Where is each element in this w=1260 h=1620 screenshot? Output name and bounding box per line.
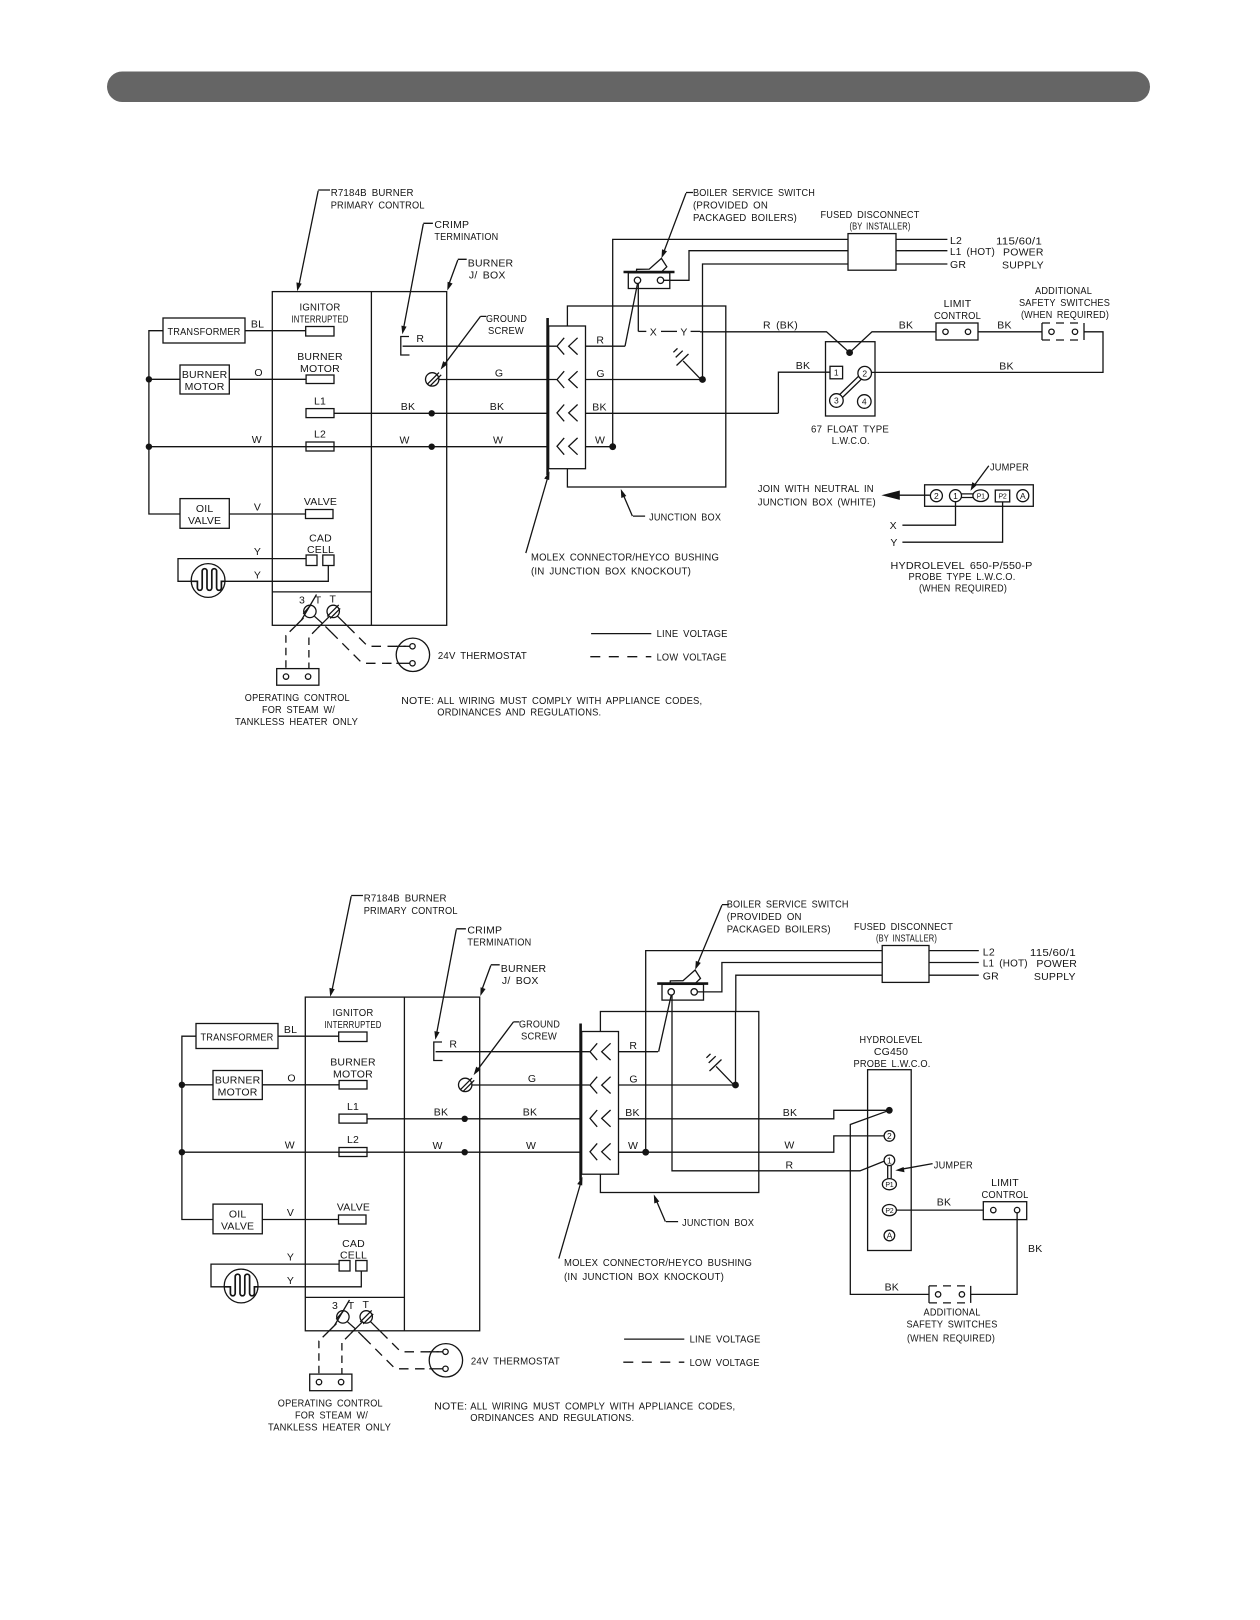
svg-text:A: A <box>1020 491 1026 501</box>
wire Y lower <box>225 566 328 582</box>
oil valve <box>180 499 229 529</box>
jumper bar <box>961 494 973 498</box>
boiler service switch callout <box>662 187 816 258</box>
fused disconnect <box>848 234 896 271</box>
jumper bar <box>888 1166 892 1179</box>
burner motor (external) <box>180 365 229 394</box>
svg-text:67 FLOAT TYPE: 67 FLOAT TYPE <box>811 423 889 435</box>
svg-text:BK: BK <box>997 319 1011 331</box>
svg-text:L2: L2 <box>950 235 962 247</box>
svg-text:Y: Y <box>890 537 897 549</box>
24V thermostat <box>396 638 429 671</box>
cad cell photocell <box>191 564 225 598</box>
wire BK row to probe <box>619 1110 887 1119</box>
svg-text:(BY INSTALLER): (BY INSTALLER) <box>876 932 937 944</box>
dashed lead to operating control L <box>295 618 304 627</box>
GR feed wire <box>736 975 882 1011</box>
svg-text:VALVE: VALVE <box>304 496 337 508</box>
svg-text:2: 2 <box>934 491 939 501</box>
svg-text:MOLEX CONNECTOR/HEYCO BUSHIN: MOLEX CONNECTOR/HEYCO BUSHING <box>531 552 719 564</box>
operating control <box>277 669 319 686</box>
svg-text:(BY INSTALLER): (BY INSTALLER) <box>850 221 911 233</box>
svg-text:L1 (HOT): L1 (HOT) <box>983 958 1028 970</box>
left bus wire <box>149 331 180 514</box>
svg-text:X: X <box>650 326 657 338</box>
node: bus/burner-motor junction <box>146 376 152 382</box>
limit control <box>983 1202 1026 1220</box>
node: neutral/W junction <box>609 443 616 450</box>
svg-text:POWER: POWER <box>1003 247 1044 259</box>
hydrolevel 650-P terminal strip <box>925 485 1034 507</box>
67 float type LWCO <box>811 342 889 447</box>
molex callout <box>526 477 548 554</box>
svg-text:R (BK): R (BK) <box>763 319 798 331</box>
svg-text:P1: P1 <box>977 493 985 500</box>
svg-text:W: W <box>252 434 262 446</box>
svg-text:1: 1 <box>834 368 839 378</box>
wire BL transformer to ignitor <box>245 330 306 332</box>
svg-text:T: T <box>329 594 336 606</box>
R7184B control box with burner J-box <box>272 292 446 626</box>
svg-text:Y: Y <box>254 569 261 581</box>
GR vertical inside junction box <box>702 306 704 380</box>
svg-text:W: W <box>784 1140 794 1152</box>
dashed lead to thermostat upper <box>337 616 348 626</box>
svg-text:BK: BK <box>490 401 504 413</box>
svg-text:LIMIT: LIMIT <box>944 298 972 310</box>
neutral feed vertical inside junction box <box>612 306 614 447</box>
fused disconnect <box>882 946 929 983</box>
svg-text:LOW VOLTAGE: LOW VOLTAGE <box>657 651 727 663</box>
svg-text:LINE VOLTAGE: LINE VOLTAGE <box>657 628 728 640</box>
svg-text:J/ BOX: J/ BOX <box>469 270 506 282</box>
BOTTOMRIGHT <box>619 899 1078 1345</box>
svg-text:1: 1 <box>887 1155 892 1165</box>
svg-text:JUNCTION BOX (WHITE): JUNCTION BOX (WHITE) <box>758 497 876 509</box>
svg-text:R: R <box>416 333 424 345</box>
svg-text:W: W <box>595 435 605 447</box>
node: bus/W junction <box>146 444 152 450</box>
GR feed wire <box>703 264 849 306</box>
svg-text:(IN JUNCTION BOX KNOCKOUT): (IN JUNCTION BOX KNOCKOUT) <box>531 566 691 578</box>
svg-text:BK: BK <box>1028 1243 1042 1255</box>
screw T <box>327 605 339 617</box>
chevrons W row <box>557 438 578 455</box>
svg-text:FOR STEAM W/: FOR STEAM W/ <box>262 704 335 716</box>
svg-text:P2: P2 <box>999 493 1007 500</box>
additional safety switches <box>1019 285 1110 340</box>
molex connector / heyco bushing <box>549 326 586 469</box>
chevrons R row <box>557 338 578 355</box>
boiler service switch <box>657 970 708 1000</box>
wire W row right of molex <box>586 446 613 448</box>
limit control <box>936 323 978 340</box>
wire BK return from probe <box>850 1110 929 1294</box>
wire V <box>229 513 305 515</box>
svg-text:CONTROL: CONTROL <box>934 310 981 322</box>
svg-text:ADDITIONAL: ADDITIONAL <box>924 1306 981 1318</box>
svg-text:ADDITIONAL: ADDITIONAL <box>1035 285 1092 297</box>
TOPRIGHT <box>586 187 1111 595</box>
svg-text:VALVE: VALVE <box>188 515 221 527</box>
wire G row with ground screw <box>426 373 439 386</box>
svg-text:PROBE L.W.C.O.: PROBE L.W.C.O. <box>854 1058 931 1070</box>
wire: switch to R (diagonal) <box>659 995 672 1051</box>
svg-text:A: A <box>887 1231 893 1241</box>
svg-text:JOIN WITH NEUTRAL IN: JOIN WITH NEUTRAL IN <box>758 483 874 495</box>
svg-text:Y: Y <box>254 546 261 558</box>
svg-text:OIL: OIL <box>196 503 214 515</box>
svg-text:(PROVIDED ON: (PROVIDED ON <box>727 911 802 923</box>
node: BK splice <box>429 410 435 416</box>
chevrons G row <box>557 371 578 388</box>
svg-text:BOILER SERVICE SWITCH: BOILER SERVICE SWITCH <box>693 187 815 199</box>
svg-text:3: 3 <box>834 396 839 406</box>
wire limit to safety <box>978 331 1042 333</box>
svg-text:2: 2 <box>887 1131 892 1141</box>
svg-text:TRANSFORMER: TRANSFORMER <box>168 326 241 338</box>
svg-text:V: V <box>254 502 261 514</box>
svg-text:SCREW: SCREW <box>488 325 524 337</box>
svg-text:P1: P1 <box>885 1182 893 1189</box>
node: G/GR junction <box>699 376 706 383</box>
svg-text:BURNER: BURNER <box>297 351 343 363</box>
svg-text:2: 2 <box>862 368 867 378</box>
wire: X-Y dashed link <box>637 284 639 332</box>
chevrons BK row <box>557 405 578 422</box>
svg-text:BURNER: BURNER <box>182 369 228 381</box>
svg-text:BK: BK <box>899 319 913 331</box>
svg-text:BK: BK <box>592 402 606 414</box>
wire W row <box>149 446 557 448</box>
svg-text:MOTOR: MOTOR <box>300 363 340 375</box>
wire Y upper <box>178 559 306 582</box>
transformer <box>163 318 245 343</box>
svg-text:SAFETY SWITCHES: SAFETY SWITCHES <box>1019 297 1110 309</box>
X stub to terminal 1 <box>902 502 955 526</box>
svg-text:CAD: CAD <box>309 533 332 545</box>
svg-text:FUSED DISCONNECT: FUSED DISCONNECT <box>821 209 920 221</box>
svg-text:SUPPLY: SUPPLY <box>1034 971 1076 983</box>
svg-text:BK: BK <box>796 360 810 372</box>
crimp termination bracket R <box>401 337 410 356</box>
svg-text:W: W <box>493 434 503 446</box>
svg-text:CRIMP: CRIMP <box>434 219 469 231</box>
additional safety switches <box>907 1286 998 1345</box>
COMMON <box>146 187 728 728</box>
svg-text:BK: BK <box>783 1107 797 1119</box>
ground symbol <box>673 348 701 379</box>
svg-text:CONTROL: CONTROL <box>982 1189 1029 1201</box>
svg-text:R7184B BURNER: R7184B BURNER <box>331 187 414 199</box>
svg-text:CELL: CELL <box>307 544 334 556</box>
L2 feed wire <box>646 951 883 1012</box>
svg-text:GR: GR <box>950 259 966 271</box>
svg-text:(WHEN REQUIRED): (WHEN REQUIRED) <box>919 583 1007 595</box>
svg-text:G: G <box>596 368 604 380</box>
svg-text:TANKLESS HEATER ONLY: TANKLESS HEATER ONLY <box>235 716 358 728</box>
jumper callout <box>974 466 989 486</box>
svg-text:HYDROLEVEL: HYDROLEVEL <box>860 1034 923 1046</box>
svg-text:R: R <box>596 334 604 346</box>
svg-text:CG450: CG450 <box>874 1046 908 1058</box>
svg-text:X: X <box>890 520 897 532</box>
burner J/box callout <box>447 257 513 290</box>
L1 feed wire <box>697 963 882 992</box>
screw 3/T <box>304 605 316 617</box>
svg-text:3: 3 <box>299 595 305 607</box>
svg-text:L.W.C.O.: L.W.C.O. <box>832 435 870 447</box>
svg-text:GROUND: GROUND <box>486 313 527 325</box>
svg-text:BK: BK <box>885 1281 899 1293</box>
svg-text:W: W <box>399 435 409 447</box>
wire R from switch down to probe terminal 1 <box>672 995 884 1171</box>
svg-text:PACKAGED BOILERS): PACKAGED BOILERS) <box>693 212 797 224</box>
svg-text:PROBE TYPE L.W.C.O.: PROBE TYPE L.W.C.O. <box>909 571 1016 583</box>
svg-text:LIMIT: LIMIT <box>991 1177 1019 1189</box>
L1 feed wire <box>664 251 848 281</box>
wire R row <box>403 345 557 347</box>
svg-text:FUSED DISCONNECT: FUSED DISCONNECT <box>854 921 953 933</box>
svg-text:(WHEN REQUIRED): (WHEN REQUIRED) <box>907 1333 995 1345</box>
svg-text:GR: GR <box>983 971 999 983</box>
svg-text:JUMPER: JUMPER <box>990 462 1029 474</box>
svg-text:(WHEN REQUIRED): (WHEN REQUIRED) <box>1021 309 1109 321</box>
svg-text:JUMPER: JUMPER <box>934 1159 973 1171</box>
svg-text:4: 4 <box>862 397 867 407</box>
wire: switch to R (diagonal) <box>625 284 638 347</box>
svg-text:PACKAGED BOILERS): PACKAGED BOILERS) <box>727 924 831 936</box>
L2 feed wire <box>613 239 848 306</box>
svg-text:SAFETY SWITCHES: SAFETY SWITCHES <box>907 1318 998 1330</box>
header bar <box>107 72 1150 103</box>
wire L1/BK row <box>334 412 557 414</box>
svg-text:POWER: POWER <box>1036 958 1077 970</box>
svg-text:L2: L2 <box>314 429 326 441</box>
svg-text:O: O <box>254 367 262 379</box>
svg-text:L1: L1 <box>314 396 326 408</box>
svg-text:Y: Y <box>680 326 687 338</box>
wire from terminal 2 to safety loop <box>872 332 1104 373</box>
svg-text:115/60/1: 115/60/1 <box>996 235 1042 247</box>
crimp termination callout <box>401 219 498 334</box>
svg-text:BK: BK <box>401 401 415 413</box>
wire R (BK) to float LWCO <box>700 332 936 353</box>
wire O <box>149 378 180 380</box>
dashed lead to thermostat lower <box>325 626 331 632</box>
svg-text:ORDINANCES AND REGULATIONS.: ORDINANCES AND REGULATIONS. <box>437 707 601 719</box>
svg-text:1: 1 <box>953 491 958 501</box>
svg-text:BK: BK <box>999 360 1013 372</box>
svg-text:L2: L2 <box>983 946 995 958</box>
junction box <box>567 306 725 487</box>
R7184B burner primary control callout <box>296 187 424 291</box>
svg-text:OPERATING CONTROL: OPERATING CONTROL <box>245 692 350 704</box>
svg-text:24V THERMOSTAT: 24V THERMOSTAT <box>438 650 527 662</box>
svg-text:JUNCTION BOX: JUNCTION BOX <box>649 512 721 524</box>
svg-text:BK: BK <box>937 1197 951 1209</box>
svg-text:IGNITOR: IGNITOR <box>300 302 341 314</box>
node: W splice <box>429 444 435 450</box>
svg-text:INTERRUPTED: INTERRUPTED <box>292 314 349 326</box>
V link under screws <box>315 616 330 623</box>
svg-text:(PROVIDED ON: (PROVIDED ON <box>693 200 768 212</box>
node: BK at probe <box>886 1107 893 1114</box>
junction box callout <box>623 494 645 516</box>
join with neutral arrow <box>888 494 930 496</box>
svg-text:MOTOR: MOTOR <box>185 381 225 393</box>
jumper callout <box>902 1164 933 1170</box>
wire BK into terminal 1 <box>778 372 830 413</box>
wire limit control down to safety <box>971 1213 1017 1295</box>
wire P2 to limit control <box>896 1209 983 1211</box>
ground screw callout <box>441 313 528 370</box>
svg-text:115/60/1: 115/60/1 <box>1030 947 1076 959</box>
svg-text:TERMINATION: TERMINATION <box>434 231 498 243</box>
svg-text:HYDROLEVEL 650-P/550-P: HYDROLEVEL 650-P/550-P <box>891 560 1033 572</box>
hydrolevel CG450 probe LWCO <box>854 1034 931 1251</box>
boiler service switch callout <box>695 899 849 970</box>
svg-text:L1 (HOT): L1 (HOT) <box>950 246 995 258</box>
svg-text:BOILER SERVICE SWITCH: BOILER SERVICE SWITCH <box>727 899 849 911</box>
svg-text:BURNER: BURNER <box>468 257 514 269</box>
svg-text:R: R <box>786 1159 794 1171</box>
svg-text:G: G <box>495 367 503 379</box>
svg-text:SUPPLY: SUPPLY <box>1002 260 1044 272</box>
legend line voltage <box>591 633 651 635</box>
svg-text:P2: P2 <box>885 1208 893 1215</box>
svg-text:NOTE:: NOTE: <box>401 695 434 707</box>
bottom diagram: duplicate of common left portion shifted down <box>179 893 761 1434</box>
legend low voltage <box>590 656 651 658</box>
boiler service switch <box>624 258 675 288</box>
svg-text:ALL WIRING MUST COMPLY WIT: ALL WIRING MUST COMPLY WITH APPLIANCE CO… <box>437 695 702 707</box>
wire W row to probe terminal 2 <box>619 1136 885 1152</box>
svg-text:BL: BL <box>251 319 264 331</box>
dashed lead to operating control R <box>317 623 322 628</box>
svg-text:PRIMARY CONTROL: PRIMARY CONTROL <box>331 199 425 211</box>
Y stub to terminal P2 <box>902 502 1002 542</box>
